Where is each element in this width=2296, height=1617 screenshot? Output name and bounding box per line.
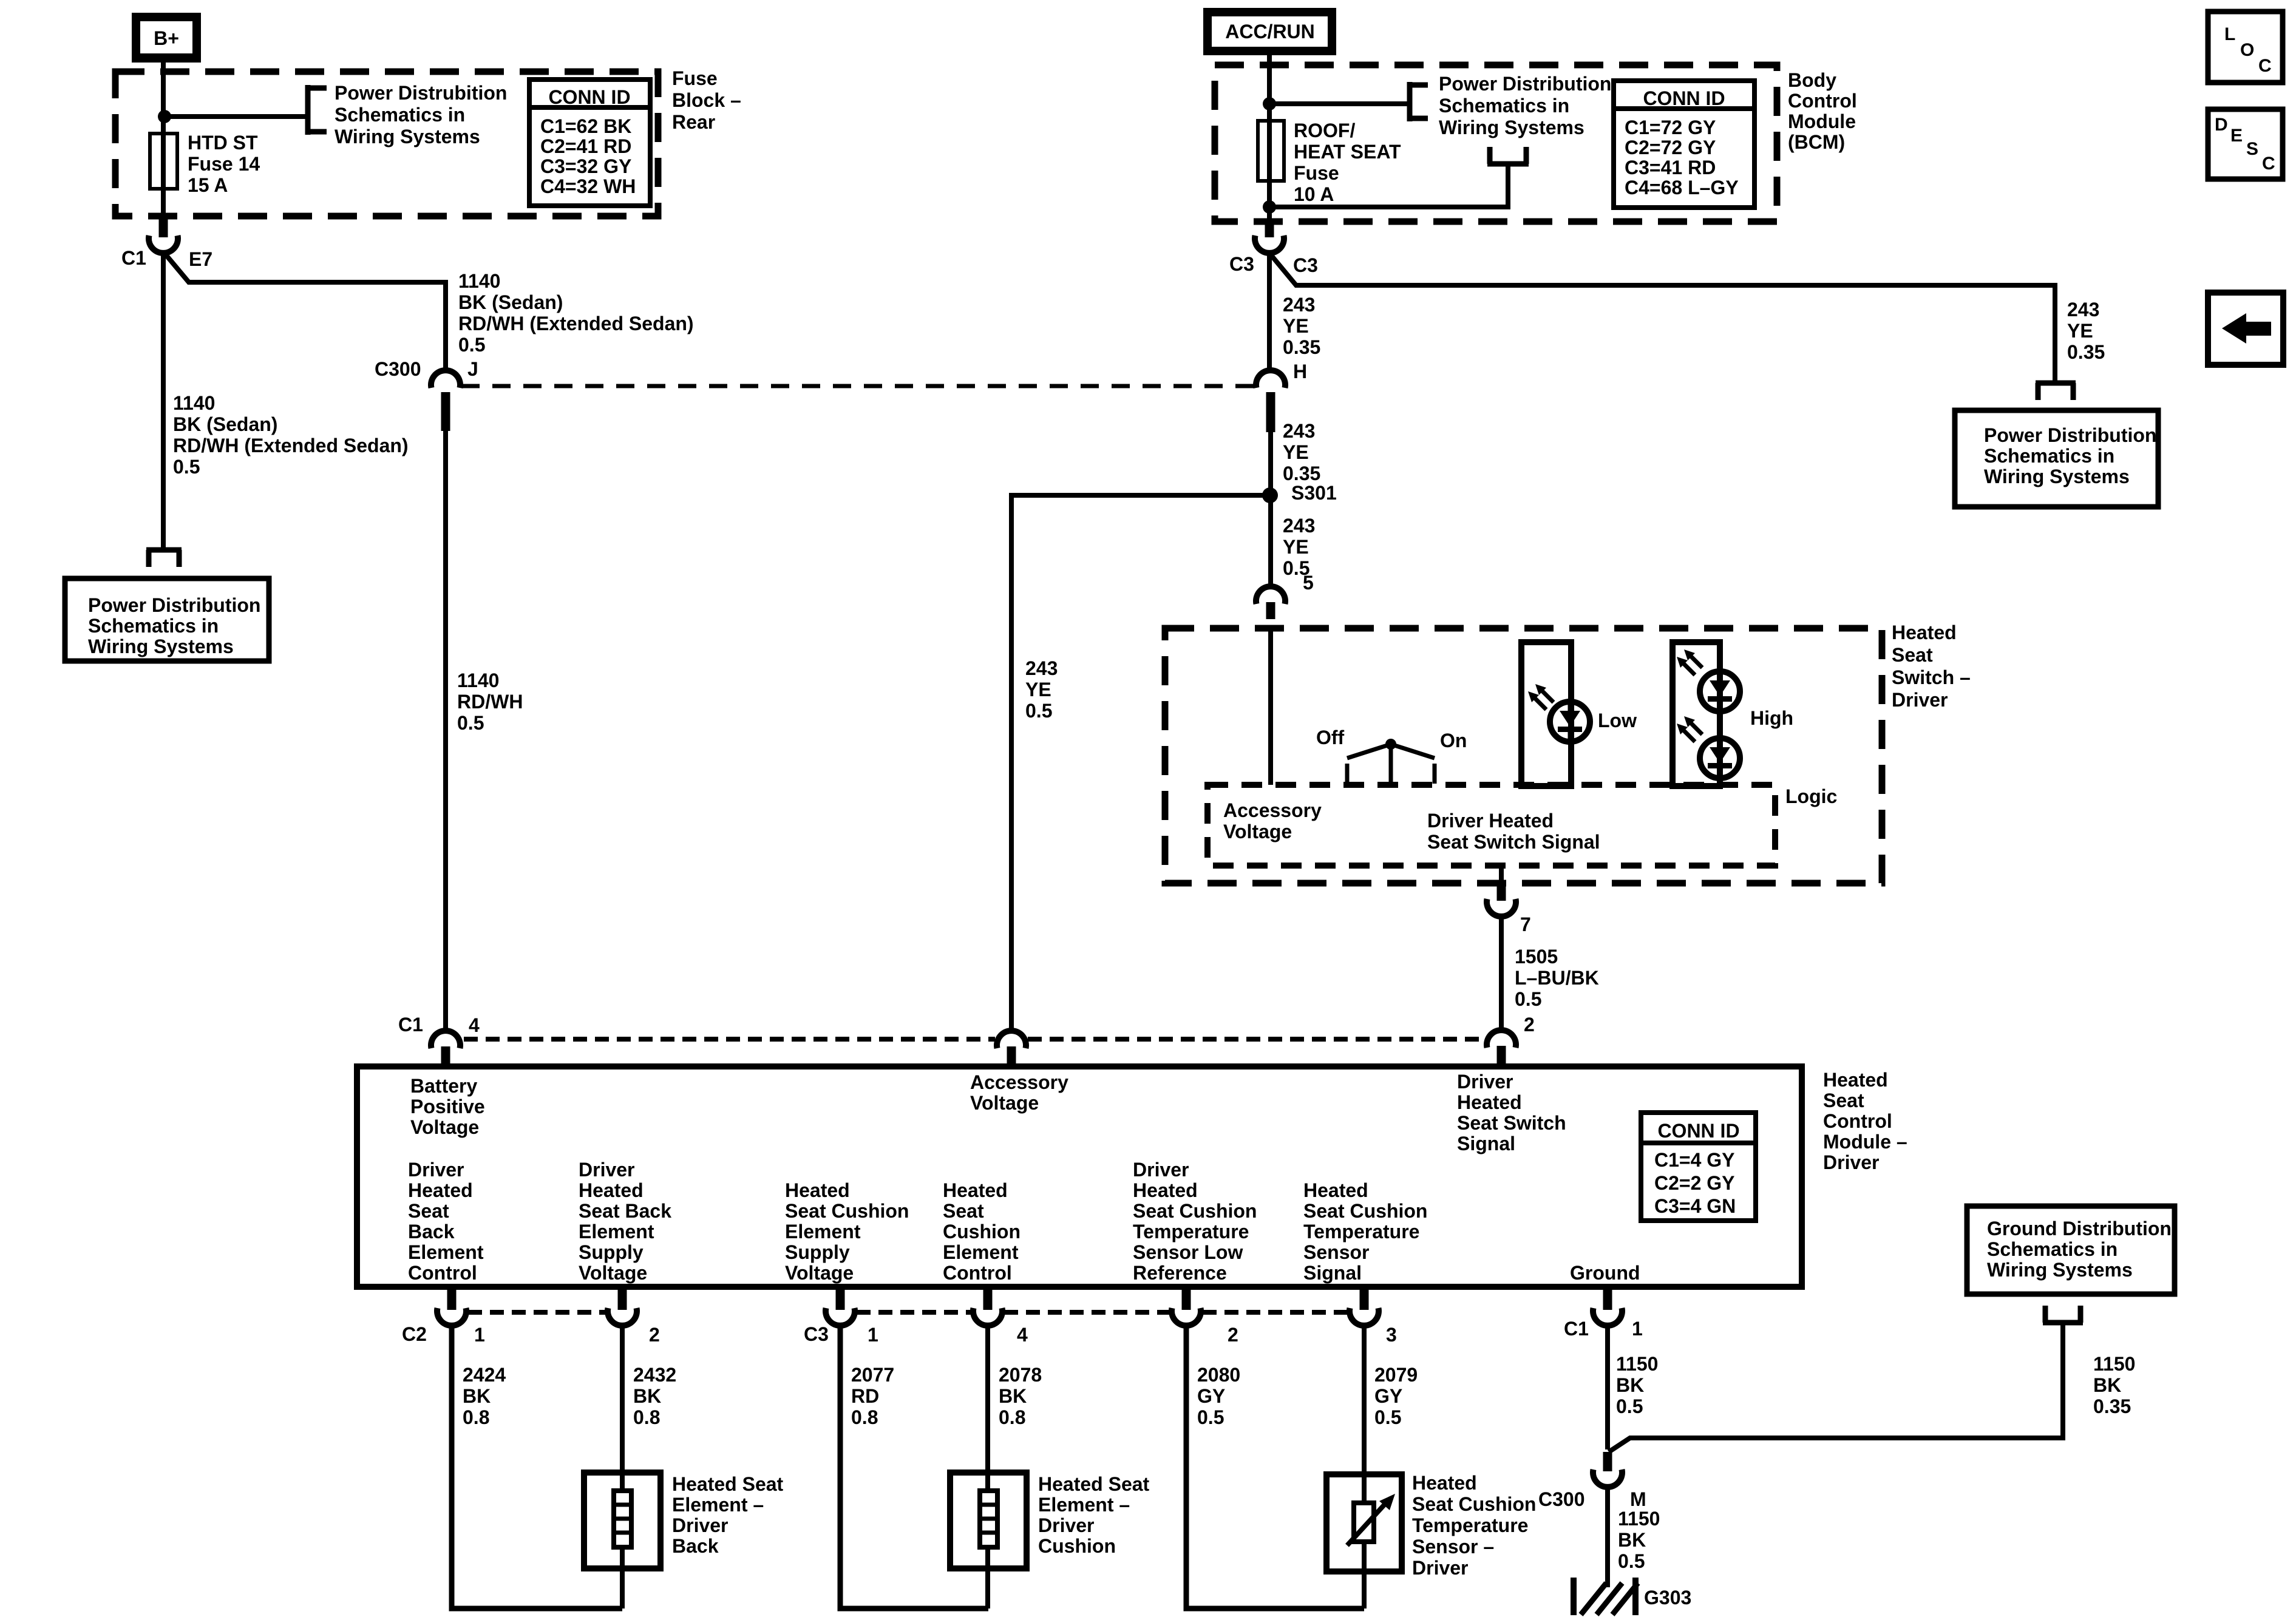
wire label 243 YE 0.5 (1283, 515, 1315, 579)
svg-text:HTD ST: HTD ST (188, 132, 258, 154)
switch Off/On (1316, 727, 1467, 784)
wire S301 branch to module pin 3 (1011, 495, 1270, 1031)
svg-text:Heated: Heated (1133, 1179, 1198, 1201)
wire label 1140 BK RD/WH (C1 branch) (173, 392, 409, 478)
connector pin 2 module (switch signal) (1487, 1014, 1535, 1066)
svg-text:Low: Low (1598, 710, 1637, 731)
svg-text:Element: Element (785, 1221, 861, 1242)
node junction on B+ feed (158, 110, 171, 123)
svg-text:1505: 1505 (1515, 946, 1558, 968)
connector C1 fuse block (pin E7) (121, 216, 212, 270)
svg-text:E7: E7 (189, 248, 212, 270)
wire H to switch connector (1268, 432, 1273, 586)
power symbol ACC/RUN (1203, 8, 1336, 55)
off-page fork to Power Distribution (146, 547, 182, 553)
svg-text:Fuse: Fuse (672, 67, 718, 89)
svg-text:Fuse 14: Fuse 14 (188, 153, 260, 175)
svg-text:Signal: Signal (1457, 1133, 1515, 1154)
label Heated Seat Cushion Temperature Sensor Signal (1303, 1179, 1427, 1284)
wire label 2424 (463, 1364, 506, 1428)
svg-text:Module: Module (1788, 110, 1856, 132)
svg-text:C2=72 GY: C2=72 GY (1625, 137, 1716, 158)
connector module bottom pin 1 (402, 1287, 485, 1346)
connector C3 BCM (1229, 220, 1318, 276)
svg-text:O: O (2240, 40, 2254, 60)
svg-text:Seat: Seat (943, 1200, 984, 1222)
connector module bottom pin 2 (1172, 1287, 1238, 1346)
svg-text:BK (Sedan): BK (Sedan) (173, 413, 277, 435)
connector module bottom pin 2 (608, 1287, 660, 1346)
connector pin 3 module (accessory) (997, 1031, 1026, 1048)
svg-text:Heated: Heated (1412, 1472, 1477, 1494)
wire label 1505 L-BU/BK 0.5 (1515, 946, 1599, 1010)
svg-text:1: 1 (868, 1324, 878, 1346)
splice S301 (1262, 482, 1337, 504)
svg-text:Driver: Driver (1457, 1071, 1513, 1093)
svg-text:Off: Off (1316, 727, 1345, 748)
dashed box Fuse Block - Rear (115, 72, 658, 216)
svg-text:BK: BK (2093, 1374, 2121, 1396)
connector C300 pin J (375, 358, 478, 431)
svg-text:0.35: 0.35 (1283, 336, 1320, 358)
wire label 243 YE 0.35 (1283, 294, 1320, 358)
svg-text:Driver: Driver (579, 1159, 635, 1181)
svg-text:Heated Seat: Heated Seat (672, 1473, 784, 1495)
svg-text:C3=41 RD: C3=41 RD (1625, 157, 1716, 178)
svg-text:243: 243 (1283, 515, 1315, 537)
svg-text:RD/WH: RD/WH (457, 691, 523, 713)
svg-text:C1=72 GY: C1=72 GY (1625, 117, 1716, 138)
svg-text:0.5: 0.5 (1515, 988, 1541, 1010)
svg-text:C4=32 WH: C4=32 WH (540, 175, 636, 197)
svg-text:Sensor Low: Sensor Low (1133, 1241, 1243, 1263)
svg-text:RD/WH (Extended Sedan): RD/WH (Extended Sedan) (173, 435, 409, 456)
wire pin2 through element back (620, 1326, 625, 1609)
svg-text:2432: 2432 (633, 1364, 676, 1386)
svg-text:0.35: 0.35 (1283, 463, 1320, 484)
wire label 1140 RD/WH 0.5 (457, 670, 523, 734)
svg-text:Sensor: Sensor (1303, 1241, 1369, 1263)
svg-text:J: J (467, 358, 478, 380)
svg-text:C2: C2 (402, 1323, 427, 1345)
svg-text:2080: 2080 (1197, 1364, 1240, 1386)
label Driver Heated Seat Back Element Supply Voltage (579, 1159, 671, 1284)
dashed connector line C300 J to H (461, 384, 1255, 388)
label Ground (1570, 1262, 1640, 1284)
svg-text:CONN ID: CONN ID (548, 86, 630, 108)
svg-text:Heated: Heated (1823, 1069, 1888, 1091)
svg-text:1: 1 (1632, 1318, 1643, 1340)
label Logic (1785, 785, 1837, 807)
svg-text:Driver: Driver (1892, 689, 1948, 711)
svg-text:ROOF/: ROOF/ (1294, 120, 1355, 141)
svg-text:Control: Control (1788, 90, 1857, 112)
svg-text:Control: Control (408, 1262, 477, 1284)
svg-text:C3: C3 (804, 1323, 829, 1345)
svg-text:BK (Sedan): BK (Sedan) (458, 291, 563, 313)
svg-text:C300: C300 (375, 358, 421, 380)
label Battery Positive Voltage (410, 1075, 485, 1138)
svg-text:2078: 2078 (999, 1364, 1042, 1386)
svg-text:Heated: Heated (408, 1179, 473, 1201)
wire B+ to fuse block (161, 61, 166, 135)
svg-text:1140: 1140 (458, 270, 500, 292)
svg-text:Wiring Systems: Wiring Systems (1439, 117, 1584, 138)
svg-text:Seat Back: Seat Back (579, 1200, 671, 1222)
svg-text:0.8: 0.8 (463, 1406, 489, 1428)
svg-text:2: 2 (1228, 1324, 1238, 1346)
label Driver Heated Seat Cushion Temperature Sensor Low Reference (1133, 1159, 1257, 1284)
wire ground pin down (1605, 1326, 1610, 1449)
label Driver Heated Seat Switch Signal (1427, 810, 1600, 853)
svg-text:YE: YE (1283, 441, 1309, 463)
nav box DESC (2208, 109, 2283, 179)
svg-text:Fuse: Fuse (1294, 162, 1339, 184)
nav box back arrow (2208, 293, 2283, 365)
svg-text:0.5: 0.5 (1374, 1406, 1401, 1428)
svg-text:Element: Element (943, 1241, 1019, 1263)
svg-text:C1=62 BK: C1=62 BK (540, 115, 631, 137)
svg-text:C1: C1 (1564, 1318, 1589, 1340)
svg-text:G303: G303 (1644, 1587, 1691, 1609)
svg-text:Schematics in: Schematics in (335, 104, 465, 126)
svg-text:2: 2 (649, 1324, 660, 1346)
label Heated Seat Cushion Element Supply Voltage (785, 1179, 909, 1284)
box Heated Seat Control Module - Driver (357, 1066, 1802, 1287)
svg-text:BK: BK (633, 1385, 661, 1407)
svg-text:(BCM): (BCM) (1788, 131, 1845, 153)
svg-text:Element: Element (408, 1241, 484, 1263)
svg-text:1140: 1140 (173, 392, 215, 414)
svg-text:Seat Switch: Seat Switch (1457, 1112, 1566, 1134)
wire label 2077 (851, 1364, 894, 1428)
svg-text:M: M (1630, 1488, 1646, 1510)
svg-text:C2=2 GY: C2=2 GY (1654, 1172, 1735, 1194)
svg-text:Signal: Signal (1303, 1262, 1362, 1284)
svg-text:L–BU/BK: L–BU/BK (1515, 967, 1599, 989)
svg-text:Voltage: Voltage (970, 1092, 1039, 1114)
connector module bottom pin 3 (1350, 1287, 1397, 1346)
nav box LOC (2208, 12, 2283, 83)
label Driver Heated Seat Switch Signal (module) (1457, 1071, 1566, 1154)
label Heated Seat Switch - Driver (1892, 622, 1971, 711)
svg-text:Driver Heated: Driver Heated (1427, 810, 1554, 832)
svg-text:Seat Cushion: Seat Cushion (1412, 1493, 1536, 1515)
wire ACC/RUN into BCM (1267, 54, 1272, 135)
svg-text:243: 243 (2067, 299, 2099, 320)
dashed connector line C1 module top (464, 1037, 995, 1042)
svg-text:C: C (2258, 56, 2272, 76)
svg-text:ACC/RUN: ACC/RUN (1225, 21, 1315, 42)
table CONN ID module (1641, 1113, 1756, 1221)
table CONN ID fuse block (529, 80, 650, 206)
svg-text:C3: C3 (1293, 254, 1318, 276)
svg-text:Control: Control (1823, 1110, 1892, 1132)
svg-text:Driver: Driver (1823, 1151, 1880, 1173)
connector pin 7 switch output (1487, 866, 1531, 935)
svg-text:0.5: 0.5 (1618, 1550, 1645, 1572)
svg-text:0.5: 0.5 (173, 456, 200, 478)
svg-text:Schematics in: Schematics in (1987, 1238, 2118, 1260)
wire M to ground (1605, 1487, 1610, 1587)
svg-text:0.5: 0.5 (1616, 1395, 1643, 1417)
svg-text:C3=32 GY: C3=32 GY (540, 155, 631, 177)
wire and fork to Power Distribution text (1269, 147, 1529, 207)
svg-text:243: 243 (1283, 294, 1315, 316)
svg-text:2077: 2077 (851, 1364, 894, 1386)
svg-text:D: D (2215, 115, 2228, 135)
heated seat element driver back (584, 1473, 784, 1568)
wire to bracket reference (1269, 101, 1410, 106)
off-page fork (right) (2036, 381, 2076, 386)
label Accessory Voltage (switch) (1223, 799, 1322, 842)
svg-text:Rear: Rear (672, 111, 715, 133)
svg-text:Power Distrubition: Power Distrubition (335, 82, 507, 104)
svg-text:Schematics in: Schematics in (1439, 95, 1569, 117)
connector module bottom pin 4 (973, 1287, 1028, 1346)
heated seat element driver cushion (950, 1473, 1150, 1568)
connector module bottom pin 1 (804, 1287, 878, 1346)
svg-text:Back: Back (672, 1535, 719, 1557)
svg-text:YE: YE (1283, 536, 1309, 558)
dashed connector line C2 bottom (468, 1310, 606, 1315)
svg-text:0.8: 0.8 (851, 1406, 878, 1428)
svg-text:1150: 1150 (2093, 1353, 2135, 1375)
svg-text:Logic: Logic (1785, 785, 1837, 807)
svg-text:Heated: Heated (943, 1179, 1008, 1201)
svg-text:Schematics in: Schematics in (1984, 445, 2114, 467)
label Heated Seat Cushion Element Control (943, 1179, 1021, 1284)
svg-text:BK: BK (999, 1385, 1027, 1407)
svg-text:0.5: 0.5 (1197, 1406, 1224, 1428)
svg-text:On: On (1440, 730, 1467, 751)
box Ground Distribution Schematics (1967, 1206, 2175, 1294)
svg-text:1140: 1140 (457, 670, 499, 691)
svg-text:Ground Distribution: Ground Distribution (1987, 1218, 2172, 1239)
svg-text:H: H (1293, 361, 1307, 382)
svg-text:Positive: Positive (410, 1096, 485, 1117)
svg-text:GY: GY (1374, 1385, 1402, 1407)
label Heated Seat Control Module - Driver (1823, 1069, 1907, 1173)
wire pin2 to temperature sensor (1186, 1326, 1364, 1609)
label Accessory Voltage (module) (970, 1071, 1068, 1114)
svg-text:Element –: Element – (1038, 1494, 1130, 1516)
svg-text:Seat: Seat (1892, 644, 1933, 666)
svg-text:BK: BK (463, 1385, 491, 1407)
svg-text:C1=4 GY: C1=4 GY (1654, 1149, 1735, 1171)
svg-text:3: 3 (1386, 1324, 1397, 1346)
wire pin4 through element cushion (985, 1326, 990, 1609)
svg-text:2079: 2079 (1374, 1364, 1418, 1386)
svg-text:Battery: Battery (410, 1075, 477, 1097)
svg-text:0.5: 0.5 (458, 334, 485, 356)
dashed box Body Control Module (1215, 65, 1777, 222)
wire label 1150 BK 0.35 (2093, 1353, 2135, 1417)
svg-text:2424: 2424 (463, 1364, 506, 1386)
svg-text:C3: C3 (1229, 253, 1254, 275)
svg-text:C1: C1 (121, 247, 146, 269)
svg-text:Switch –: Switch – (1892, 666, 1971, 688)
connector module bottom pin C1 1 (ground) (1564, 1287, 1643, 1340)
wire label 243 YE 0.35 (right branch) (2067, 299, 2105, 363)
svg-text:Temperature: Temperature (1303, 1221, 1419, 1242)
svg-text:Heated: Heated (1457, 1091, 1522, 1113)
svg-text:Heated: Heated (1892, 622, 1957, 643)
svg-text:B+: B+ (154, 27, 179, 49)
svg-text:C3=4 GN: C3=4 GN (1654, 1195, 1736, 1217)
svg-text:Seat Cushion: Seat Cushion (1133, 1200, 1257, 1222)
svg-text:Seat: Seat (408, 1200, 449, 1222)
svg-text:Wiring Systems: Wiring Systems (88, 636, 234, 657)
svg-text:Heated Seat: Heated Seat (1038, 1473, 1150, 1495)
svg-text:Voltage: Voltage (579, 1262, 647, 1284)
wire accessory voltage into switch (1268, 626, 1273, 785)
svg-text:C1: C1 (398, 1014, 423, 1036)
box Power Distribution Schematics (right) (1955, 410, 2158, 507)
svg-text:7: 7 (1520, 914, 1531, 935)
svg-text:HEAT SEAT: HEAT SEAT (1294, 141, 1401, 163)
svg-text:0.5: 0.5 (1025, 700, 1052, 722)
svg-text:Driver: Driver (1133, 1159, 1189, 1181)
off-page fork ground distribution (2043, 1320, 2083, 1326)
svg-text:C2=41 RD: C2=41 RD (540, 135, 631, 157)
svg-text:Power Distribution: Power Distribution (1984, 424, 2156, 446)
svg-text:Module –: Module – (1823, 1131, 1907, 1153)
svg-text:0.35: 0.35 (2093, 1395, 2131, 1417)
svg-text:Seat Switch Signal: Seat Switch Signal (1427, 831, 1600, 853)
svg-text:E: E (2230, 126, 2243, 146)
svg-text:Block –: Block – (672, 89, 741, 111)
wire J down to module pin 4 (443, 431, 448, 1031)
wire label 243 YE 0.35 (below H) (1283, 420, 1320, 484)
wire E7 branch (164, 253, 446, 371)
svg-text:Element –: Element – (672, 1494, 764, 1516)
svg-text:Temperature: Temperature (1133, 1221, 1249, 1242)
connector pin 5 heated seat switch (1256, 572, 1314, 619)
svg-text:Body: Body (1788, 69, 1836, 91)
svg-text:YE: YE (2067, 320, 2093, 342)
connector pin 4 module (battery) (398, 1014, 480, 1066)
svg-text:1150: 1150 (1616, 1353, 1658, 1375)
svg-text:1: 1 (474, 1324, 485, 1346)
svg-text:Reference: Reference (1133, 1262, 1227, 1284)
svg-text:Heated: Heated (785, 1179, 850, 1201)
svg-text:Heated: Heated (1303, 1179, 1368, 1201)
svg-text:Voltage: Voltage (785, 1262, 854, 1284)
svg-text:Driver: Driver (1412, 1557, 1469, 1579)
dashed box Heated Seat Switch - Driver (1165, 628, 1882, 883)
wire C1 down to power distribution reference (161, 252, 166, 549)
svg-text:0.8: 0.8 (633, 1406, 660, 1428)
svg-text:Seat: Seat (1823, 1090, 1864, 1111)
wire pin1 to element cushion (840, 1326, 988, 1609)
svg-text:4: 4 (469, 1014, 480, 1036)
heated seat cushion temperature sensor driver (1326, 1472, 1536, 1579)
svg-text:Wiring Systems: Wiring Systems (1984, 466, 2130, 487)
bracket reference Power Distribution (BCM) (1407, 73, 1611, 138)
svg-text:Heated: Heated (579, 1179, 644, 1201)
svg-text:Supply: Supply (785, 1241, 850, 1263)
wire pin1 to element back (452, 1326, 622, 1609)
power symbol B+ (132, 13, 201, 63)
svg-text:0.35: 0.35 (2067, 341, 2105, 363)
label Body Control Module (BCM) (1788, 69, 1857, 153)
wire label 2080 (1197, 1364, 1240, 1428)
wire label 1140 BK RD/WH (E7 branch) (458, 270, 694, 356)
wire label 1150 BK 0.5 (1616, 1353, 1658, 1417)
svg-text:Driver: Driver (408, 1159, 464, 1181)
svg-text:High: High (1750, 707, 1793, 729)
label Fuse Block - Rear (672, 67, 741, 133)
connector C300 pin H (1256, 361, 1307, 432)
indicator LEDs High (1673, 642, 1793, 786)
svg-text:YE: YE (1025, 679, 1051, 700)
svg-text:Seat Cushion: Seat Cushion (1303, 1200, 1427, 1222)
svg-text:Cushion: Cushion (943, 1221, 1021, 1242)
svg-text:Power Distribution: Power Distribution (1439, 73, 1611, 95)
ground G303 (1574, 1578, 1691, 1615)
svg-text:YE: YE (1283, 315, 1309, 337)
svg-text:Seat Cushion: Seat Cushion (785, 1200, 909, 1222)
svg-text:GY: GY (1197, 1385, 1225, 1407)
bracket reference Power Distrubition (305, 82, 507, 147)
table CONN ID BCM (1614, 81, 1754, 208)
svg-text:Sensor –: Sensor – (1412, 1536, 1494, 1558)
svg-text:2: 2 (1524, 1014, 1535, 1036)
svg-text:BK: BK (1618, 1529, 1646, 1551)
svg-text:Driver: Driver (672, 1514, 729, 1536)
svg-text:Wiring Systems: Wiring Systems (1987, 1259, 2133, 1281)
svg-text:4: 4 (1017, 1324, 1028, 1346)
svg-text:15 A: 15 A (188, 174, 228, 196)
label Driver Heated Seat Back Element Control (408, 1159, 484, 1284)
dashed box Logic (1207, 785, 1775, 866)
svg-text:Voltage: Voltage (410, 1116, 479, 1138)
svg-text:BK: BK (1616, 1374, 1644, 1396)
wire label 2078 (999, 1364, 1042, 1428)
wire label 1150 BK 0.5 (to G303) (1618, 1508, 1660, 1572)
box Power Distribution Schematics (left) (65, 578, 269, 661)
svg-text:10 A: 10 A (1294, 183, 1334, 205)
fuse HTD ST Fuse 14 15A (150, 117, 260, 217)
svg-text:C: C (2262, 154, 2275, 174)
svg-text:Back: Back (408, 1221, 455, 1242)
wire 1150 from ground distribution (1609, 1323, 2063, 1452)
svg-text:RD/WH (Extended Sedan): RD/WH (Extended Sedan) (458, 313, 694, 334)
wire pin3 through temperature sensor (1362, 1326, 1367, 1609)
svg-text:CONN ID: CONN ID (1657, 1120, 1739, 1142)
svg-text:Power Distribution: Power Distribution (88, 594, 260, 616)
svg-text:Accessory: Accessory (970, 1071, 1068, 1093)
dashed connector line C3 bottom (857, 1310, 971, 1315)
node junction above fuse (1263, 97, 1276, 110)
svg-text:243: 243 (1025, 657, 1058, 679)
svg-text:C4=68 L–GY: C4=68 L–GY (1625, 177, 1739, 198)
svg-text:CONN ID: CONN ID (1643, 87, 1725, 109)
svg-text:243: 243 (1283, 420, 1315, 442)
svg-text:RD: RD (851, 1385, 879, 1407)
svg-text:C300: C300 (1538, 1488, 1585, 1510)
wire to schematic reference (165, 114, 305, 119)
svg-text:0.5: 0.5 (457, 712, 484, 734)
svg-text:1150: 1150 (1618, 1508, 1660, 1530)
node junction below fuse (1263, 200, 1276, 214)
fuse ROOF/HEAT SEAT 10A (1258, 104, 1401, 222)
wire C3 down to H (1267, 252, 1272, 371)
svg-text:L: L (2224, 24, 2235, 44)
svg-text:Element: Element (579, 1221, 654, 1242)
svg-text:Cushion: Cushion (1038, 1535, 1116, 1557)
